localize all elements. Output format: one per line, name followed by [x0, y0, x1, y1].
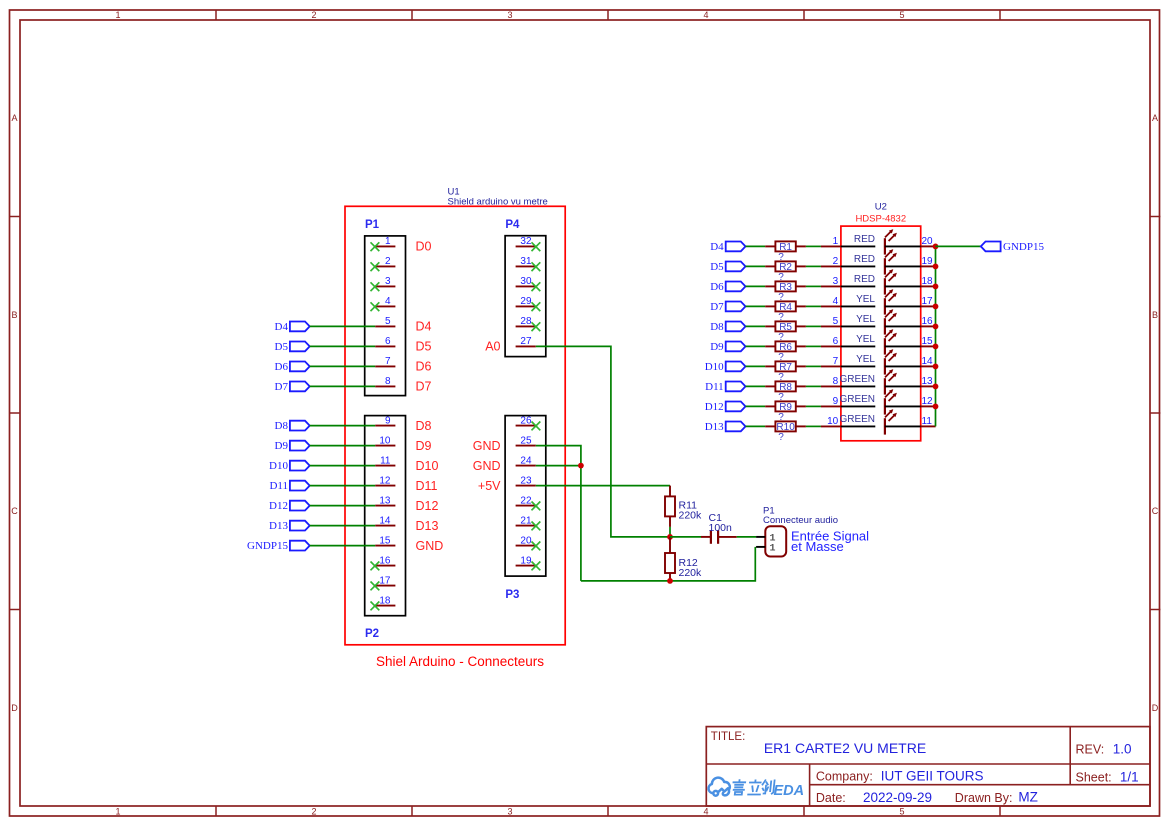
no-connect X pin 3	[371, 282, 380, 291]
svg-text:2: 2	[385, 256, 391, 267]
no-connect X pin 4	[371, 302, 380, 311]
svg-text:7: 7	[385, 356, 391, 367]
net flag D4 (U2 row 1)	[710, 241, 745, 253]
svg-text:GNDP15: GNDP15	[1003, 241, 1044, 253]
svg-text:Shiel Arduino - Connecteurs: Shiel Arduino - Connecteurs	[376, 654, 544, 669]
no-connect X pin 16	[371, 562, 380, 571]
connector P3 body	[505, 416, 546, 576]
svg-text:Date:: Date:	[816, 791, 846, 805]
no-connect X pin 30	[532, 282, 541, 291]
U2 pin 4	[821, 296, 841, 307]
LED cathode lead row 6	[885, 345, 921, 347]
column tick marks bottom	[216, 806, 1000, 816]
U2 pin 10	[821, 416, 841, 427]
junction U2 pin 13	[933, 384, 939, 390]
U2 pin 5	[821, 316, 841, 327]
net flag D8 (U2 row 5)	[710, 321, 745, 333]
capacitor C1	[701, 530, 737, 544]
svg-text:5: 5	[833, 316, 839, 327]
svg-text:13: 13	[379, 495, 391, 506]
svg-text:REV:: REV:	[1076, 743, 1105, 757]
U2 pin 18	[921, 276, 936, 287]
wire D13 flag to R10	[746, 425, 766, 427]
svg-text:R6: R6	[779, 342, 792, 353]
net flag D13 (U2 row 10)	[705, 421, 746, 433]
LED anode lead row 2	[841, 265, 875, 267]
wire D10 flag to R7	[746, 365, 766, 367]
LED D10 triangle and cathode	[875, 418, 885, 434]
svg-text:30: 30	[520, 276, 532, 287]
LED D4 triangle and cathode	[875, 298, 885, 314]
svg-text:D7: D7	[275, 381, 289, 393]
P1 audio pin 2	[756, 543, 775, 554]
svg-text:D6: D6	[416, 360, 432, 374]
wire R5 to U2 pin 5	[806, 325, 821, 327]
wire D6 flag to R3	[746, 285, 766, 287]
U2 pin 13	[921, 376, 936, 387]
svg-text:D12: D12	[416, 499, 439, 513]
wire D12 to connector	[310, 505, 376, 507]
no-connect X pin 22	[532, 502, 541, 511]
net flag D7 (U2 row 4)	[710, 301, 745, 313]
svg-text:29: 29	[520, 296, 532, 307]
P-conn pin 5	[375, 316, 395, 327]
LED anode lead row 4	[841, 305, 875, 307]
svg-text:1: 1	[770, 543, 776, 554]
P1 audio pin 1	[756, 533, 775, 544]
svg-text:R7: R7	[779, 362, 792, 373]
svg-text:3: 3	[507, 807, 512, 817]
U2 pin 3	[821, 276, 841, 287]
svg-text:11: 11	[922, 416, 933, 427]
svg-text:D13: D13	[269, 520, 288, 532]
svg-text:10: 10	[827, 416, 839, 427]
svg-text:R3: R3	[779, 282, 792, 293]
svg-text:100n: 100n	[709, 522, 733, 534]
LED cathode lead row 7	[885, 365, 921, 367]
LED cathode lead row 1	[885, 245, 921, 247]
wire C1 right to P1 audio	[737, 536, 756, 538]
no-connect X pin 18	[371, 602, 380, 611]
LED anode lead row 1	[841, 245, 875, 247]
svg-text:U2: U2	[875, 202, 887, 213]
svg-text:D0: D0	[416, 240, 432, 254]
LED D10 emission arrows	[885, 409, 897, 421]
svg-text:220k: 220k	[679, 567, 703, 579]
LED cathode lead row 5	[885, 325, 921, 327]
svg-text:17: 17	[379, 575, 391, 586]
svg-text:4: 4	[703, 10, 708, 20]
svg-text:Sheet:: Sheet:	[1076, 771, 1112, 785]
title block outline	[706, 727, 1150, 806]
wire D7 flag to R4	[746, 305, 766, 307]
svg-text:16: 16	[379, 555, 391, 566]
svg-text:23: 23	[520, 475, 532, 486]
svg-text:D5: D5	[710, 261, 724, 273]
svg-text:R4: R4	[779, 302, 792, 313]
junction U2 pin 12	[933, 404, 939, 410]
net flag D10 (left)	[269, 460, 310, 472]
svg-text:YEL: YEL	[856, 334, 875, 345]
column labels top	[115, 10, 904, 20]
resistor R7	[765, 361, 806, 372]
svg-text:et Masse: et Masse	[791, 539, 844, 554]
wire D11 flag to R8	[746, 385, 766, 387]
svg-text:17: 17	[922, 296, 934, 307]
wire D10 to connector	[310, 465, 376, 467]
LED D8 emission arrows	[885, 369, 897, 381]
svg-text:27: 27	[520, 336, 532, 347]
P-conn pin 2	[375, 256, 395, 267]
svg-text:D10: D10	[269, 460, 288, 472]
U2 pin 8	[821, 376, 841, 387]
svg-text:D9: D9	[416, 439, 432, 453]
svg-text:6: 6	[385, 336, 391, 347]
P-conn pin 7	[375, 356, 395, 367]
net flag D13 (left)	[269, 520, 310, 532]
svg-text:Company:: Company:	[816, 769, 873, 783]
wire D4 to connector	[310, 325, 376, 327]
wire D4 flag to R1	[746, 245, 766, 247]
wire D13 to connector	[310, 525, 376, 527]
wire pin25 GND to vertical rail	[536, 446, 581, 581]
svg-text:D10: D10	[705, 361, 724, 373]
net flag D11 (left)	[269, 480, 309, 492]
JLCEDA logo cloud	[709, 778, 730, 796]
LED anode lead row 10	[841, 425, 875, 427]
svg-text:GNDP15: GNDP15	[247, 540, 288, 552]
P-conn pin 25	[516, 435, 536, 446]
wire R1 to U2 pin 1	[806, 245, 821, 247]
svg-text:21: 21	[520, 515, 532, 526]
LED anode lead row 7	[841, 365, 875, 367]
LED cathode lead row 3	[885, 285, 921, 287]
svg-text:2022-09-29: 2022-09-29	[863, 790, 932, 805]
svg-text:8: 8	[385, 376, 391, 387]
wire R4 to U2 pin 4	[806, 305, 821, 307]
svg-text:28: 28	[520, 316, 532, 327]
svg-text:B: B	[11, 310, 17, 320]
svg-text:GREEN: GREEN	[839, 414, 875, 425]
wire D5 to connector	[310, 345, 376, 347]
svg-text:22: 22	[520, 495, 532, 506]
P-conn pin 20	[516, 535, 536, 546]
LED D2 emission arrows	[885, 249, 897, 261]
svg-text:MZ: MZ	[1018, 790, 1038, 805]
U2 pin 16	[921, 316, 936, 327]
no-connect X pin 20	[532, 542, 541, 551]
LED anode lead row 6	[841, 345, 875, 347]
net flag GNDP15 (left)	[247, 540, 310, 552]
LED D7 emission arrows	[885, 349, 897, 361]
no-connect X pin 21	[532, 522, 541, 531]
wire R6 to U2 pin 6	[806, 345, 821, 347]
no-connect X pin 2	[371, 262, 380, 271]
LED D9 triangle and cathode	[875, 398, 885, 414]
net flag D8 (left)	[275, 420, 310, 432]
U2 pin 12	[921, 396, 936, 407]
svg-text:P4: P4	[505, 219, 520, 231]
U2 pin 11	[921, 416, 936, 427]
svg-text:P1: P1	[365, 219, 380, 231]
svg-text:RED: RED	[854, 234, 875, 245]
P-conn pin 13	[375, 495, 395, 506]
resistor R3	[765, 281, 806, 292]
svg-text:GND: GND	[473, 439, 501, 453]
svg-text:32: 32	[520, 236, 532, 247]
no-connect X pin 17	[371, 582, 380, 591]
svg-text:GND: GND	[473, 459, 501, 473]
wire pin23 +5V to R11 top	[536, 485, 670, 487]
P-conn pin 3	[375, 276, 395, 287]
svg-text:2: 2	[311, 10, 316, 20]
P-conn pin 28	[516, 316, 536, 327]
svg-text:D: D	[1152, 703, 1159, 713]
P-conn pin 18	[375, 595, 395, 606]
no-connect X pin 28	[532, 322, 541, 331]
svg-text:B: B	[1152, 310, 1158, 320]
svg-text:5: 5	[385, 316, 391, 327]
svg-text:D5: D5	[275, 341, 289, 353]
net flag GNDP15 (right)	[981, 241, 1045, 253]
net flag D7 (left)	[275, 381, 310, 393]
svg-text:D4: D4	[710, 241, 724, 253]
resistor R6	[765, 341, 806, 352]
P-conn pin 26	[516, 415, 536, 426]
P-conn pin 14	[375, 515, 395, 526]
svg-text:D4: D4	[416, 320, 432, 334]
svg-text:R10: R10	[776, 422, 795, 433]
column labels bottom	[115, 807, 904, 817]
U2 pin 15	[921, 336, 936, 347]
LED D6 emission arrows	[885, 329, 897, 341]
row labels right	[1152, 113, 1159, 713]
connector P1 body	[365, 236, 406, 396]
net flag D9 (U2 row 6)	[710, 341, 745, 353]
svg-text:Connecteur audio: Connecteur audio	[763, 515, 838, 526]
svg-text:P2: P2	[365, 628, 379, 640]
svg-text:11: 11	[380, 455, 391, 466]
wire D8 to connector	[310, 425, 376, 427]
svg-text:26: 26	[520, 415, 532, 426]
svg-text:D8: D8	[416, 419, 432, 433]
wire R3 to U2 pin 3	[806, 285, 821, 287]
svg-text:ER1 CARTE2 VU METRE: ER1 CARTE2 VU METRE	[764, 740, 926, 756]
LED D5 emission arrows	[885, 309, 897, 321]
row tick marks left	[10, 217, 21, 610]
svg-text:15: 15	[922, 336, 934, 347]
svg-text:20: 20	[922, 236, 934, 247]
net flag D12 (left)	[269, 500, 310, 512]
wire pin24 GND to rail	[536, 465, 581, 467]
svg-text:12: 12	[379, 475, 391, 486]
U2 pin 17	[921, 296, 936, 307]
P-conn pin 23	[516, 475, 536, 486]
svg-text:4: 4	[385, 296, 391, 307]
svg-text:D13: D13	[416, 519, 439, 533]
LED D1 emission arrows	[885, 229, 897, 241]
svg-text:5: 5	[899, 10, 904, 20]
P-conn pin 31	[516, 256, 536, 267]
wire D9 flag to R6	[746, 345, 766, 347]
wire U2 pin20 to GNDP15 flag	[936, 245, 981, 247]
svg-text:14: 14	[922, 356, 934, 367]
svg-text:1: 1	[115, 807, 120, 817]
svg-text:31: 31	[520, 256, 532, 267]
svg-text:D12: D12	[269, 500, 288, 512]
LED D4 emission arrows	[885, 289, 897, 301]
title block divider horizontal 1	[706, 763, 1150, 765]
no-connect X pin 19	[532, 562, 541, 571]
P-conn pin 32	[516, 236, 536, 247]
svg-text:9: 9	[385, 415, 391, 426]
net flag D4 (left)	[275, 321, 310, 333]
svg-text:D11: D11	[416, 479, 438, 493]
no-connect X pin 1	[371, 242, 380, 251]
svg-text:D9: D9	[275, 440, 289, 452]
svg-text:6: 6	[833, 336, 839, 347]
P-conn pin 4	[375, 296, 395, 307]
LED cathode lead row 9	[885, 405, 921, 407]
svg-text:12: 12	[922, 396, 934, 407]
junction pin24/rail	[578, 463, 584, 469]
svg-text:24: 24	[520, 455, 532, 466]
U2 pin 19	[921, 256, 936, 267]
net flag D5 (left)	[275, 341, 310, 353]
svg-text:8: 8	[833, 376, 839, 387]
P-conn pin 11	[375, 455, 395, 466]
LED D6 triangle and cathode	[875, 338, 885, 354]
svg-text:+5V: +5V	[478, 479, 501, 493]
P-conn pin 12	[375, 475, 395, 486]
svg-text:EDA: EDA	[774, 783, 805, 799]
P-conn pin 15	[375, 535, 395, 546]
svg-text:GND: GND	[416, 539, 444, 553]
junction U2 pin 15	[933, 344, 939, 350]
title block divider vertical rev cell	[1069, 727, 1071, 785]
svg-text:14: 14	[379, 515, 391, 526]
svg-text:D6: D6	[275, 361, 289, 373]
resistor R4	[765, 301, 806, 312]
junction U2 pin 18	[933, 284, 939, 290]
P-conn pin 8	[375, 376, 395, 387]
svg-text:1: 1	[115, 10, 120, 20]
svg-text:R8: R8	[779, 382, 792, 393]
op-amp U1 shield outline rectangle	[345, 206, 565, 645]
svg-text:D: D	[11, 703, 18, 713]
wire D5 flag to R2	[746, 265, 766, 267]
svg-text:GREEN: GREEN	[839, 394, 875, 405]
P-conn pin 29	[516, 296, 536, 307]
svg-text:Drawn By:: Drawn By:	[955, 791, 1013, 805]
wire D7 to connector	[310, 385, 376, 387]
svg-text:D12: D12	[705, 401, 724, 413]
title block divider horizontal 2	[810, 784, 1150, 786]
row labels left	[11, 113, 18, 713]
wire R2 to U2 pin 2	[806, 265, 821, 267]
U2 pin 7	[821, 356, 841, 367]
net flag D9 (left)	[275, 440, 310, 452]
svg-text:D11: D11	[269, 480, 288, 492]
column tick marks top	[216, 10, 1000, 20]
wire R7 to U2 pin 7	[806, 365, 821, 367]
LED D7 triangle and cathode	[875, 358, 885, 374]
svg-text:RED: RED	[854, 254, 875, 265]
svg-text:10: 10	[379, 435, 391, 446]
svg-text:R2: R2	[779, 262, 792, 273]
wire D11 to connector	[310, 485, 376, 487]
svg-text:18: 18	[922, 276, 934, 287]
P-conn pin 30	[516, 276, 536, 287]
svg-text:RED: RED	[854, 274, 875, 285]
svg-text:25: 25	[520, 435, 532, 446]
svg-text:IUT GEII TOURS: IUT GEII TOURS	[881, 768, 984, 783]
net flag D6 (left)	[275, 361, 310, 373]
LED D3 emission arrows	[885, 269, 897, 281]
svg-text:D4: D4	[275, 321, 289, 333]
svg-text:20: 20	[520, 535, 532, 546]
svg-text:D8: D8	[275, 420, 289, 432]
title block divider vertical logo cell	[809, 764, 811, 806]
no-connect X pin 32	[532, 242, 541, 251]
resistor R2	[765, 261, 806, 272]
wire R11 bottom to C1 node	[669, 527, 671, 537]
svg-text:3: 3	[507, 10, 512, 20]
wire R8 to U2 pin 8	[806, 385, 821, 387]
U2 pin 14	[921, 356, 936, 367]
resistor R9	[765, 401, 806, 412]
svg-text:Shield arduino vu metre: Shield arduino vu metre	[448, 197, 548, 208]
LED cathode lead row 8	[885, 385, 921, 387]
svg-text:HDSP-4832: HDSP-4832	[855, 214, 906, 225]
net flag D6 (U2 row 3)	[710, 281, 745, 293]
svg-text:D13: D13	[705, 421, 724, 433]
svg-text:YEL: YEL	[856, 294, 875, 305]
svg-text:D7: D7	[710, 301, 724, 313]
P-conn pin 21	[516, 515, 536, 526]
P-conn pin 19	[516, 555, 536, 566]
net flag D5 (U2 row 2)	[710, 261, 745, 273]
LED D8 triangle and cathode	[875, 378, 885, 394]
wire C1 left	[670, 536, 701, 538]
junction U2 pin 19	[933, 264, 939, 270]
U2 pin 9	[821, 396, 841, 407]
connector P1 audio body	[765, 526, 786, 556]
LED D2 triangle and cathode	[875, 258, 885, 274]
wire GNDP15 to connector	[310, 545, 376, 547]
svg-text:D6: D6	[710, 281, 724, 293]
svg-text:4: 4	[703, 807, 708, 817]
wire D9 to connector	[310, 445, 376, 447]
net flag D10 (U2 row 7)	[705, 361, 746, 373]
wire D6 to connector	[310, 365, 376, 367]
junction U2 pin 14	[933, 364, 939, 370]
svg-text:1/1: 1/1	[1120, 770, 1139, 785]
svg-text:A: A	[1152, 113, 1158, 123]
svg-text:R5: R5	[779, 322, 792, 333]
svg-text:D10: D10	[416, 459, 439, 473]
svg-text:D7: D7	[416, 380, 432, 394]
svg-text:2: 2	[833, 256, 839, 267]
junction U2 pin 20	[933, 244, 939, 250]
LED D5 triangle and cathode	[875, 318, 885, 334]
LED cathode lead row 2	[885, 265, 921, 267]
svg-text:R9: R9	[779, 402, 792, 413]
svg-text:9: 9	[833, 396, 839, 407]
svg-text:A0: A0	[485, 340, 500, 354]
wire bottom ground rail	[581, 547, 755, 581]
LED anode lead row 3	[841, 285, 875, 287]
